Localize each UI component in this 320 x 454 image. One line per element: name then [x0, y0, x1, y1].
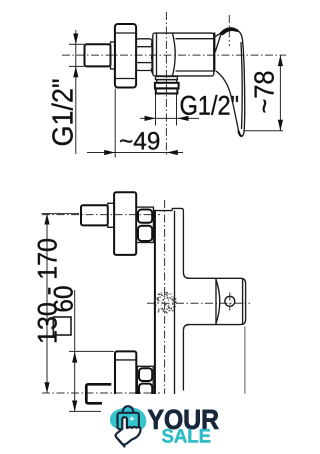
- white box under logo: [104, 394, 268, 450]
- collar: [111, 42, 116, 69]
- stray extension line right: [244, 327, 246, 394]
- blade inner face line: [241, 42, 242, 129]
- bottom flange front: [115, 351, 136, 411]
- outlet stack below body: [156, 77, 178, 80]
- top hex nut front: [136, 207, 153, 242]
- top connector centerline: [42, 214, 160, 216]
- lever blade: [216, 30, 245, 136]
- nipple G1/2 left (side view): [85, 44, 111, 66]
- ~78 dimension: [279, 55, 281, 131]
- lever escutcheon slant: [215, 32, 222, 52]
- middle centerline: [147, 302, 250, 304]
- text SALE: [162, 429, 210, 443]
- plate right edge upper: [183, 211, 189, 279]
- vertical centerline front: [164, 200, 166, 396]
- step to plate: [172, 208, 183, 210]
- top nipple front: [81, 205, 108, 225]
- handle neck arc: [216, 280, 220, 324]
- vertical centerline lever dome: [228, 15, 230, 46]
- arrow down at nipple top: [73, 34, 78, 45]
- main horizontal centerline: [62, 54, 286, 56]
- ext lines nipple edges: [69, 43, 84, 45]
- plate right edge lower: [183, 325, 189, 391]
- G1/2" middle dimension: [140, 117, 199, 119]
- front body slab: [154, 210, 156, 394]
- hand cuff: [119, 440, 125, 447]
- body end-cap line: [156, 33, 158, 76]
- bottom hex nut front: [137, 366, 153, 400]
- body inner lines: [176, 38, 214, 40]
- hex nut (side): [136, 39, 152, 71]
- cartridge stipple circle: [153, 292, 176, 314]
- handle block inner vline: [215, 278, 217, 324]
- bottom nipple thick bracket: [86, 384, 111, 403]
- hand pointer: [116, 417, 141, 444]
- text YOUR: [148, 410, 219, 430]
- bottom connector centerline: [42, 392, 160, 394]
- end-cap bumps: [152, 42, 153, 74]
- body (side view): [153, 33, 214, 76]
- shopping bag: [123, 406, 134, 413]
- left diameter dimension: vertical line with arrows: [75, 30, 77, 154]
- arrow up at nipple bottom: [73, 66, 78, 77]
- teal blob: [110, 407, 146, 431]
- vertical centerline outlet: [165, 12, 167, 157]
- flange chamfer lines: [115, 32, 136, 34]
- cartridge bulge: [173, 33, 176, 75]
- body right thick edge: [213, 33, 215, 72]
- bag sparkle: [130, 417, 134, 421]
- 130-170 dimension: [46, 214, 48, 394]
- G1/2" middle text: [181, 95, 238, 115]
- screw circle: [225, 296, 235, 306]
- handle block outline: [187, 278, 246, 324]
- lever dome cap: [221, 29, 237, 34]
- handle end cap double line: [242, 278, 244, 324]
- flange escutcheon (side): [115, 24, 136, 88]
- G1/2" text left (rotated): [52, 80, 73, 146]
- ~49 dimension: [87, 152, 183, 154]
- top flange front: [114, 192, 136, 255]
- square-60 dimension: [54, 286, 73, 311]
